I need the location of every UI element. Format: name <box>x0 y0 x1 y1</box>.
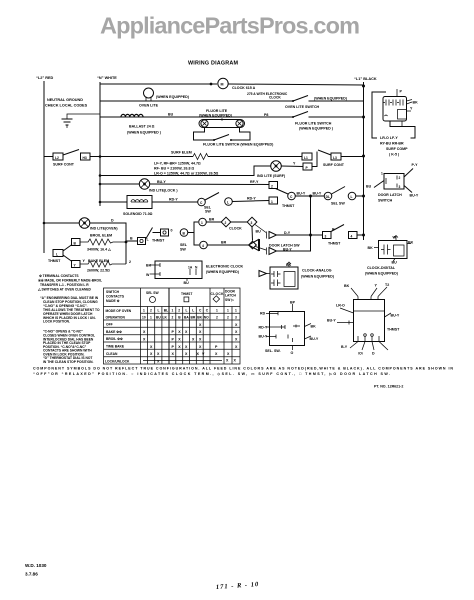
door latch wire P-Y <box>404 169 413 178</box>
thmst terminal box upper <box>269 182 278 189</box>
svg-text:BROIL ELEM: BROIL ELEM <box>90 234 112 238</box>
svg-text:BK: BK <box>408 241 414 245</box>
svg-text:RF-Y: RF-Y <box>250 180 259 184</box>
svg-text:BU-Y: BU-Y <box>391 314 400 318</box>
svg-text:2: 2 <box>227 316 229 320</box>
wire ballast line <box>100 116 293 118</box>
svg-text:RD: RD <box>260 312 266 316</box>
door latch diamond small <box>249 241 257 249</box>
svg-text:P: P <box>400 90 403 94</box>
wire L2c to thmst lower terminal <box>232 201 269 202</box>
svg-text:T2: T2 <box>385 283 389 287</box>
svg-text:C: C <box>199 309 202 313</box>
sel sw right lead BK <box>305 324 312 327</box>
svg-text:SURF CONT: SURF CONT <box>53 163 75 167</box>
svg-text:L: L <box>56 252 58 256</box>
svg-text:L: L <box>351 195 353 199</box>
svg-text:“L2” RED: “L2” RED <box>36 76 54 80</box>
svg-text:FLUOR LITE: FLUOR LITE <box>206 109 228 113</box>
svg-text:W: W <box>146 273 150 277</box>
svg-text:BU-Y: BU-Y <box>157 180 166 184</box>
wire oven lamp line <box>44 222 79 224</box>
svg-text:L1: L1 <box>304 156 308 160</box>
svg-text:B: B <box>130 237 133 241</box>
svg-text:X: X <box>215 352 218 356</box>
node cross N <box>99 155 102 158</box>
svg-text:IND LITE(LOCK ): IND LITE(LOCK ) <box>149 189 178 193</box>
svg-text:P: P <box>215 345 218 349</box>
svg-text:BK: BK <box>197 316 202 320</box>
svg-text:1A: 1A <box>188 266 193 270</box>
svg-text:SW ▷: SW ▷ <box>225 298 234 302</box>
svg-text:BU-Y: BU-Y <box>313 192 322 196</box>
svg-text:“OFF”OR “RELAXED” POSITION.: “OFF”OR “RELAXED” POSITION. ○ INDICATES … <box>33 372 390 376</box>
thmst blade to C <box>276 189 289 195</box>
svg-text:1: 1 <box>216 309 218 313</box>
svg-text:BU: BU <box>184 281 190 285</box>
terminal P box <box>303 163 312 170</box>
wire clock motor to L1 <box>228 84 363 85</box>
svg-text:L: L <box>186 309 188 313</box>
svg-text:(WHEN EQUIPPED): (WHEN EQUIPPED) <box>301 275 335 279</box>
svg-text:X: X <box>192 338 195 342</box>
svg-text:BK: BK <box>368 246 374 250</box>
resistor surf element <box>193 154 208 160</box>
svg-text:P: P <box>172 345 175 349</box>
svg-text:SW: SW <box>205 210 211 214</box>
clock terminal C2 <box>198 198 206 206</box>
wire diamond3 to arrow <box>255 225 266 233</box>
svg-text:CLOCK: CLOCK <box>229 227 242 231</box>
clock motor M <box>218 78 228 88</box>
svg-text:4: 4 <box>351 234 353 238</box>
clock terminal L2c <box>225 198 233 206</box>
svg-text:P: P <box>172 338 175 342</box>
clock-analog inner rect <box>284 272 295 287</box>
svg-text:CLOCK-ANALOG: CLOCK-ANALOG <box>302 269 332 273</box>
svg-text:Y: Y <box>375 284 378 288</box>
svg-text:OFF: OFF <box>106 323 113 327</box>
surf comp bracket wire <box>372 92 386 138</box>
thermostat top pins <box>358 297 378 300</box>
svg-text:C: C <box>200 201 203 205</box>
svg-text:X: X <box>185 330 188 334</box>
wire bus N vertical <box>99 82 101 206</box>
svg-text:1: 1 <box>143 309 145 313</box>
surf cont terminal L3 <box>331 153 341 160</box>
svg-text:C: C <box>290 195 293 199</box>
buzzer triangle <box>249 240 259 251</box>
indicator lamp IND LITE OVEN <box>79 218 90 229</box>
svg-text:H3: H3 <box>83 156 87 160</box>
door latch wire BU <box>374 181 384 188</box>
svg-text:(WHEN EQUIPPED ): (WHEN EQUIPPED ) <box>127 131 162 135</box>
fluor lamp loop wires <box>194 127 215 140</box>
svg-text:D: D <box>372 352 375 356</box>
thermostat bottom contacts <box>358 336 379 342</box>
svg-text:FLUOR LITE SWITCH: FLUOR LITE SWITCH <box>295 122 332 126</box>
svg-text:CONTACTS: CONTACTS <box>106 295 125 299</box>
svg-text:IN THE CLEAN STOP POSITION.: IN THE CLEAN STOP POSITION. <box>43 360 94 364</box>
svg-text:X: X <box>143 330 146 334</box>
svg-text:0: 0 <box>171 229 173 233</box>
broil terminal <box>72 239 81 246</box>
clock-digital left pin BK <box>374 247 379 249</box>
clock-digital top pin W <box>395 237 397 241</box>
svg-text:B: B <box>74 241 77 245</box>
indicator lamp IND LITE SURF <box>271 161 282 172</box>
svg-text:BK: BK <box>311 325 317 329</box>
svg-text:L: L <box>147 238 150 242</box>
svg-text:BK: BK <box>344 284 350 288</box>
svg-text:(WHEN EQUIPPED ): (WHEN EQUIPPED ) <box>299 127 334 131</box>
svg-text:LOCK/UNLOCK: LOCK/UNLOCK <box>105 359 130 363</box>
svg-text:※※ MADE, OR FORMERLY MADE-BROI: ※※ MADE, OR FORMERLY MADE-BROIL <box>38 278 102 283</box>
svg-text:LOCK POSITION.: LOCK POSITION. <box>43 320 70 324</box>
clock-digital bottom pin BU <box>393 259 395 262</box>
svg-text:X: X <box>157 352 160 356</box>
svg-text:W: W <box>393 236 397 240</box>
svg-text:X: X <box>235 323 238 327</box>
svg-text:SURF CONT: SURF CONT <box>323 163 345 167</box>
svg-text:Y: Y <box>74 263 77 267</box>
svg-text:SWITCH: SWITCH <box>378 199 393 203</box>
svg-text:ELECTRONIC CLOCK: ELECTRONIC CLOCK <box>206 265 244 269</box>
svg-text:C: C <box>206 309 209 313</box>
surf comp bottom wires <box>390 121 415 138</box>
fluor lite door switch blade <box>214 135 229 141</box>
svg-text:D: D <box>111 219 114 223</box>
svg-text:1: 1 <box>227 309 229 313</box>
svg-text:△ SWITCHES AT OVEN CLEANED: △ SWITCHES AT OVEN CLEANED <box>37 288 92 292</box>
oven lite switch <box>293 96 308 102</box>
svg-text:IND LITE (SURF): IND LITE (SURF) <box>257 174 286 178</box>
svg-text:OVEN LITE SWITCH: OVEN LITE SWITCH <box>285 105 320 109</box>
svg-text:BK: BK <box>286 263 292 267</box>
svg-text:W.D. 1030: W.D. 1030 <box>25 563 47 568</box>
wire bus L2 vertical <box>43 81 45 253</box>
resistor bake element <box>80 261 126 267</box>
wire lamp to corner <box>90 223 126 264</box>
clock terminal diamond 3 <box>247 217 257 227</box>
svg-text:NEUTRAL GROUND: NEUTRAL GROUND <box>47 98 83 102</box>
sel sw blade <box>332 187 346 195</box>
svg-text:RY-BU RR-BR: RY-BU RR-BR <box>380 142 404 146</box>
svg-text:X: X <box>150 345 153 349</box>
svg-text:BAKE ELEM: BAKE ELEM <box>88 259 109 263</box>
svg-text:IND LITE(OVEN): IND LITE(OVEN) <box>90 227 118 231</box>
surf comp inner rect <box>398 110 407 120</box>
svg-text:SWITCH: SWITCH <box>106 290 120 294</box>
wire small diamond to arrow lower <box>256 247 267 251</box>
svg-text:SOLENOID 71.0Ω: SOLENOID 71.0Ω <box>123 212 153 216</box>
svg-text:1: 1 <box>201 221 203 225</box>
svg-text:THMST: THMST <box>152 239 165 243</box>
svg-text:X: X <box>235 345 238 349</box>
svg-text:X: X <box>199 338 202 342</box>
wire blade row <box>153 232 162 234</box>
svg-text:OPERATION: OPERATION <box>106 316 126 320</box>
thmst blade broil <box>63 245 72 252</box>
wire ind lite surf branch <box>100 166 271 176</box>
svg-text:CLOCK-DIGITAL: CLOCK-DIGITAL <box>367 266 396 270</box>
svg-text:BK: BK <box>146 264 152 268</box>
table terminal row A <box>143 309 237 313</box>
svg-text:P: P <box>306 166 309 170</box>
svg-text:BR: BR <box>191 316 196 320</box>
sel sw blade2 <box>205 193 219 201</box>
connector arrow lower <box>269 248 277 255</box>
clock-analog box U2 <box>270 267 298 289</box>
svg-text:3: 3 <box>235 316 237 320</box>
svg-text:3400W, 16.4 △: 3400W, 16.4 △ <box>87 248 112 252</box>
svg-text:CLEAN: CLEAN <box>106 352 118 356</box>
indicator lamp IND LITE LOCK <box>139 179 149 189</box>
svg-text:X: X <box>185 352 188 356</box>
surf comp tilde pin <box>385 115 388 116</box>
thmst terminal 4 <box>349 232 358 239</box>
wire to bus <box>357 234 364 236</box>
svg-text:RD-Y: RD-Y <box>169 198 178 202</box>
svg-text:2: 2 <box>172 316 174 320</box>
svg-text:X: X <box>172 352 175 356</box>
svg-text:LR-O = 1250W, 44.7Ω or 2100W,: LR-O = 1250W, 44.7Ω or 2100W, 26.5Ω <box>154 172 219 176</box>
wire 1 to 2 <box>206 221 221 223</box>
wire 2 to 3 <box>231 221 247 223</box>
svg-text:X: X <box>235 338 238 342</box>
thmst box left <box>53 250 63 257</box>
svg-text:THMST: THMST <box>387 328 400 332</box>
table row lines <box>104 307 241 357</box>
clock-analog caps <box>271 271 281 277</box>
wire surf element to right switch <box>208 156 302 158</box>
svg-text:1: 1 <box>271 200 273 204</box>
solenoid box <box>127 196 152 209</box>
electronic clock pins left <box>150 264 160 266</box>
svg-text:MADE ※: MADE ※ <box>106 298 120 303</box>
svg-text:X: X <box>150 352 153 356</box>
thermostat top leads <box>351 288 358 297</box>
svg-text:P-Y: P-Y <box>412 163 419 167</box>
clock terminal L <box>348 192 356 200</box>
node V5 junction <box>309 195 312 198</box>
svg-text:X: X <box>178 330 181 334</box>
wire sel sw to bracket <box>188 232 194 234</box>
fluor lite switch on line <box>293 112 308 118</box>
svg-text:/O\: /O\ <box>358 352 363 356</box>
svg-text:Y: Y <box>410 107 413 111</box>
svg-text:X: X <box>157 360 160 364</box>
svg-text:RF- BU = 2100W, 26.8 Ω: RF- BU = 2100W, 26.8 Ω <box>154 167 194 171</box>
svg-text:(WHEN EQUIPPED): (WHEN EQUIPPED) <box>314 97 348 101</box>
thermostat right lead BU-Y <box>385 313 392 317</box>
svg-text:1: 1 <box>150 316 152 320</box>
wire surf element line <box>90 156 193 158</box>
svg-text:SEL SW: SEL SW <box>331 202 345 206</box>
surf comp right wire BK <box>407 100 413 102</box>
svg-text:WIRING DIAGRAM: WIRING DIAGRAM <box>188 61 239 67</box>
svg-text:LK: LK <box>163 316 168 320</box>
svg-text:L: L <box>158 309 160 313</box>
sel sw block box <box>270 312 305 346</box>
svg-text:CLOCK: CLOCK <box>269 96 281 100</box>
svg-text:3: 3 <box>399 185 401 189</box>
svg-text:BU: BU <box>256 230 262 234</box>
table subcolumn lines <box>148 307 162 365</box>
table terminal row B <box>142 316 237 320</box>
wire clock bracket <box>194 222 199 245</box>
wire upper doorlatch row <box>277 234 324 236</box>
svg-text:(WHEN EQUIPPED): (WHEN EQUIPPED) <box>365 272 399 276</box>
electronic clock pin BU <box>186 279 188 282</box>
svg-text:SURF COMP: SURF COMP <box>386 147 408 151</box>
svg-text:(WHEN EQUIPPED): (WHEN EQUIPPED) <box>199 114 233 118</box>
wire V5 vertical <box>298 196 311 251</box>
node L1 junctions <box>362 85 365 88</box>
svg-text:4: 4 <box>202 244 204 248</box>
wire lower doorlatch row <box>277 250 299 252</box>
svg-text:BU: BU <box>168 113 174 117</box>
svg-text:“L1” BLACK: “L1” BLACK <box>354 77 377 81</box>
door latch wire BU-Y <box>404 186 412 193</box>
svg-text:BK: BK <box>413 101 419 105</box>
surf comp box <box>383 97 407 122</box>
sel sw inner contacts <box>276 312 293 342</box>
surf cont switch blade left <box>63 150 79 156</box>
svg-text:RD-Y: RD-Y <box>247 197 256 201</box>
surf cont terminal L1 <box>302 153 312 160</box>
node junction <box>210 83 213 86</box>
svg-text:Y: Y <box>293 162 296 166</box>
svg-text:BR: BR <box>209 218 215 222</box>
wire lamp to terminal P <box>281 165 303 168</box>
svg-text:B: B <box>178 316 181 320</box>
thermostat block box <box>354 300 385 342</box>
svg-text:TIME BAKE: TIME BAKE <box>106 345 125 349</box>
svg-text:THMST: THMST <box>282 204 295 208</box>
svg-text:X: X <box>178 345 181 349</box>
svg-text:X: X <box>227 352 230 356</box>
svg-text:NO: NO <box>204 316 209 320</box>
svg-text:X: X <box>143 338 146 342</box>
svg-text:COMPONENT SYMBOLS DO NOT REFLE: COMPONENT SYMBOLS DO NOT REFLECT TRUE CO… <box>33 367 453 371</box>
svg-text:M: M <box>221 83 224 87</box>
svg-text:X: X <box>234 359 237 363</box>
sel sw bottom pin O <box>292 346 294 351</box>
ground symbol <box>62 119 73 128</box>
svg-text:SURF ELEM: SURF ELEM <box>171 151 192 155</box>
svg-text:X: X <box>197 352 200 356</box>
svg-text:CHECK LOCAL CODES: CHECK LOCAL CODES <box>45 104 88 108</box>
svg-text:2: 2 <box>399 176 401 180</box>
svg-text:TRANSFER L-1 - POSITION L R: TRANSFER L-1 - POSITION L R <box>40 283 89 287</box>
svg-text:D-Y: D-Y <box>284 231 291 235</box>
svg-text:2: 2 <box>271 184 273 188</box>
svg-text:DL: DL <box>326 195 330 199</box>
sel sw terminal box <box>138 238 146 245</box>
door latch switch box <box>384 174 404 190</box>
clock terminal C <box>288 192 296 200</box>
clock-analog top pin BK <box>288 263 290 267</box>
electronic clock box U1 <box>155 261 202 279</box>
svg-text:X: X <box>199 345 202 349</box>
svg-text:LATCH: LATCH <box>225 294 237 298</box>
svg-text:BU-Y: BU-Y <box>297 192 306 196</box>
svg-text:RD-Y: RD-Y <box>259 326 268 330</box>
thmst terminal box lower <box>269 197 278 204</box>
surf comp right wire Y <box>407 110 412 112</box>
svg-text:LF-Y, RF-BR= 1250W, 44.7Ω: LF-Y, RF-BR= 1250W, 44.7Ω <box>154 162 201 166</box>
svg-text:L: L <box>227 200 229 204</box>
svg-text:BALLAST 24 Ω: BALLAST 24 Ω <box>129 125 155 129</box>
svg-text:BU-Y: BU-Y <box>410 194 419 198</box>
svg-text:X: X <box>226 359 229 363</box>
svg-text:BU-Y: BU-Y <box>310 337 319 341</box>
svg-text:MODE OF OVEN: MODE OF OVEN <box>106 309 132 313</box>
thmst blade right <box>331 225 344 232</box>
table outer frame <box>104 288 241 364</box>
svg-text:※ TERMINAL CONTACTS: ※ TERMINAL CONTACTS <box>39 273 79 278</box>
svg-text:X: X <box>178 338 181 342</box>
ballast coil <box>121 114 143 117</box>
svg-text:LR-O: LR-O <box>336 304 345 308</box>
wire lock lamp line <box>100 183 139 185</box>
svg-text:BU: BU <box>156 316 161 320</box>
resistor broil element <box>80 239 126 245</box>
wire P up to surf cont blade <box>312 152 317 167</box>
svg-text:AppliancePartsPros.com: AppliancePartsPros.com <box>100 13 360 39</box>
svg-text:171 - R - 10: 171 - R - 10 <box>216 581 260 591</box>
svg-text:SELSW: SELSW <box>180 243 188 251</box>
wire to L1 bus <box>341 156 364 158</box>
wire oven lite line left <box>100 100 293 102</box>
clock terminal DL <box>324 192 332 200</box>
svg-text:V: V <box>202 352 205 356</box>
svg-text:SEL. SW.: SEL. SW. <box>265 349 281 353</box>
svg-text:CLOCK 615 A: CLOCK 615 A <box>232 86 256 90</box>
svg-text:275 A WITH ELECTRONIC: 275 A WITH ELECTRONIC <box>247 92 288 96</box>
thmst terminal 3 <box>323 232 332 239</box>
svg-text:P: P <box>172 330 175 334</box>
wire 4 to buzzer <box>207 244 248 246</box>
svg-text:(WHEN EQUIPPED): (WHEN EQUIPPED) <box>206 270 240 274</box>
svg-text:X: X <box>235 330 238 334</box>
sel sw blade small <box>146 228 153 239</box>
wire solenoid feed <box>100 201 127 203</box>
surf cont switch blade right <box>318 150 331 155</box>
surf cont terminal L2 <box>44 156 53 158</box>
svg-text:BROIL ※※: BROIL ※※ <box>106 336 123 341</box>
svg-text:X: X <box>199 323 202 327</box>
svg-text:BP: BP <box>290 301 296 305</box>
svg-text:3: 3 <box>325 234 327 238</box>
sel sw top pin BP <box>292 304 294 312</box>
svg-text:Y: Y <box>83 259 86 263</box>
svg-text:CLOCK: CLOCK <box>211 292 225 296</box>
svg-text:2600W, 22.5Ω: 2600W, 22.5Ω <box>87 269 110 273</box>
wire broil to sel sw terminal <box>126 240 138 242</box>
connector arrow upper <box>269 232 277 239</box>
svg-text:O: O <box>291 351 294 355</box>
wire C to junction <box>295 195 324 197</box>
electronic clock pins right <box>190 269 196 275</box>
svg-text:LR-O LF-Y: LR-O LF-Y <box>380 136 398 140</box>
clock-analog left arrow <box>259 271 267 277</box>
svg-text:BAKE ※※: BAKE ※※ <box>106 329 122 334</box>
svg-text:1: 1 <box>235 309 237 313</box>
clock-digital right pin BK <box>407 243 411 245</box>
svg-text:2: 2 <box>129 260 131 264</box>
